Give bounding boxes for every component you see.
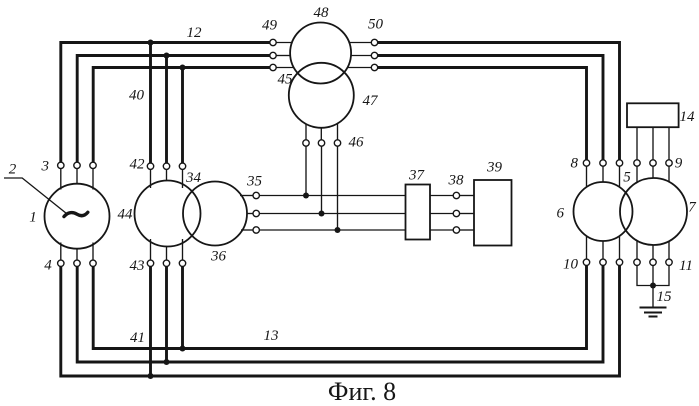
svg-text:5: 5 [623, 170, 631, 186]
pointer line from label 2 to tilde [4, 178, 67, 214]
svg-text:43: 43 [130, 258, 145, 274]
terminal 49c [270, 64, 276, 70]
block 14 [627, 103, 679, 127]
machine 6 (left circle of right pair) [574, 182, 633, 241]
wire terminal 46b down to row2 [321, 146, 323, 213]
svg-text:8: 8 [570, 156, 578, 172]
terminal 50c [371, 64, 377, 70]
junction dot tap40b-busB [164, 53, 170, 59]
terminal 10a [583, 259, 589, 265]
junction dot tap41c-busC [180, 346, 186, 352]
ground symbol [640, 308, 667, 317]
junction dot tap40c-busC [180, 65, 186, 71]
wire row2 terminal35b to rect37 [259, 213, 405, 215]
svg-text:42: 42 [130, 157, 146, 173]
terminal 49a [270, 39, 276, 45]
svg-text:45: 45 [278, 72, 294, 88]
wire machine44 bottom leads [151, 239, 183, 260]
wire bus phase C left+top segment [93, 68, 270, 163]
wire machine7 top leads from terminals 9 [637, 166, 669, 183]
svg-text:34: 34 [185, 170, 202, 186]
junction dot neutral point 15 [650, 283, 656, 289]
wire bus phase B left+top segment [77, 56, 270, 163]
wire machine6 bottom leads [587, 236, 620, 260]
wire tap 40c top bus C to terminal 42c [181, 68, 184, 164]
wire bus phase C bottom U segment [93, 265, 586, 348]
block 37 [406, 185, 431, 240]
block 39 [474, 180, 512, 246]
svg-text:6: 6 [557, 206, 565, 222]
terminal 4c [90, 260, 96, 266]
terminal 42a [147, 163, 153, 169]
wire rect37 to terminal38 row2 [430, 213, 453, 215]
svg-text:14: 14 [680, 109, 696, 125]
wire bus phase A left+top segment (machine1 top to transformer48 left) [61, 43, 270, 163]
terminal 11a [634, 259, 640, 265]
junction dot 46a-row1 [303, 193, 309, 199]
terminal 11b [650, 259, 656, 265]
terminal 3c [90, 162, 96, 168]
terminal 38c [453, 227, 459, 233]
terminal 35c [253, 227, 259, 233]
wire rect37 to terminal38 row1 [430, 195, 453, 197]
terminal 9a [634, 160, 640, 166]
svg-text:38: 38 [448, 173, 465, 189]
terminal 46b [318, 140, 324, 146]
terminal 46a [303, 140, 309, 146]
terminal 38b [453, 210, 459, 216]
wire terminal 46c down to row3 [337, 146, 339, 230]
wire tap 40a top bus A to terminal 42a [149, 43, 152, 164]
svg-text:3: 3 [40, 159, 49, 175]
terminal 42c [179, 163, 185, 169]
terminal 3a [58, 162, 64, 168]
junction dot tap41b-busB [164, 359, 170, 365]
svg-text:Фиг. 8: Фиг. 8 [328, 377, 396, 406]
svg-text:40: 40 [129, 88, 145, 104]
wire tap 41c terminal 43c to bottom bus C [181, 266, 184, 348]
terminal 50a [371, 39, 377, 45]
terminal 46c [334, 140, 340, 146]
svg-text:4: 4 [44, 258, 52, 274]
wire row3 terminal35c to rect37 [259, 229, 405, 231]
svg-text:35: 35 [246, 174, 263, 190]
terminal 43b [163, 260, 169, 266]
svg-text:46: 46 [349, 135, 365, 151]
machine 36 (right circle of pair) [183, 182, 247, 246]
terminal 43c [179, 260, 185, 266]
wire machine44 top leads [151, 169, 183, 188]
wire bus phase B bottom U segment [77, 265, 603, 362]
svg-text:11: 11 [679, 258, 693, 274]
wire terminal38 to rect39 row3 [460, 229, 474, 231]
terminal 35b [253, 210, 259, 216]
terminal 11c [666, 259, 672, 265]
wire transformer48 left leads from terminals 49 [276, 43, 294, 68]
machine 1 (AC generator) [45, 184, 110, 249]
wire tap 40b top bus B to terminal 42b [165, 56, 168, 164]
wire machine1 bottom leads [61, 243, 93, 261]
machine 7 (right circle of right pair) [620, 178, 687, 245]
svg-text:36: 36 [210, 249, 227, 265]
transformer winding 47 (bottom circle) [289, 63, 354, 128]
terminal 49b [270, 52, 276, 58]
svg-text:47: 47 [363, 93, 380, 109]
terminal 8a [583, 160, 589, 166]
wire machine1 top leads [61, 168, 93, 189]
svg-text:49: 49 [262, 18, 278, 34]
svg-text:12: 12 [187, 25, 203, 41]
svg-text:1: 1 [29, 209, 37, 225]
machine 44 (left circle of pair) [135, 181, 201, 247]
terminal 8b [600, 160, 606, 166]
terminal 8c [616, 160, 622, 166]
wire transformer47 bottom leads to terminals 46 [306, 124, 338, 140]
terminal 10c [616, 259, 622, 265]
wire terminal38 to rect39 row2 [460, 213, 474, 215]
svg-text:9: 9 [675, 156, 683, 172]
wire tap 41a terminal 43a to bottom bus A [149, 266, 152, 376]
svg-text:50: 50 [368, 17, 384, 33]
transformer winding 48 (top circle) [290, 23, 351, 84]
terminal 10b [600, 259, 606, 265]
terminal 3b [74, 162, 80, 168]
wire row1 terminal35a to rect37 [259, 195, 405, 197]
wire bus phase A bottom U segment (machine6 bottom to machine1 bottom) [61, 265, 620, 376]
terminal 50b [371, 52, 377, 58]
wire machine6 top leads [587, 166, 620, 188]
wire rect37 to terminal38 row3 [430, 229, 453, 231]
wire transformer48 right leads to terminals 50 [347, 43, 371, 68]
terminal 42b [163, 163, 169, 169]
wire machine36 output leads to terminals 35 [240, 196, 253, 231]
junction dot tap41a-busA [148, 373, 154, 379]
junction dot 46b-row2 [319, 211, 325, 217]
terminal 35a [253, 192, 259, 198]
svg-text:2: 2 [9, 162, 17, 178]
svg-text:15: 15 [657, 289, 673, 305]
svg-text:48: 48 [314, 5, 330, 21]
wire terminal38 to rect39 row1 [460, 195, 474, 197]
svg-text:39: 39 [486, 160, 503, 176]
svg-text:13: 13 [264, 328, 279, 344]
junction dot 46c-row3 [335, 227, 341, 233]
wire tap 41b terminal 43b to bottom bus B [165, 266, 168, 362]
wire bus phase B right+top segment [378, 56, 603, 161]
wire terminal 46a down to row1 [305, 146, 307, 195]
terminal 4b [74, 260, 80, 266]
junction dot tap40a-busA [148, 40, 154, 46]
wire bus phase C right+top segment [378, 68, 587, 161]
terminal 38a [453, 192, 459, 198]
svg-text:44: 44 [118, 206, 134, 222]
terminal 9b [650, 160, 656, 166]
wire terminals 11 star join to neutral point 15 [637, 265, 669, 285]
wire rect14 to terminals 9 [637, 127, 669, 160]
wire neutral lead terminal 11b to ground [652, 265, 654, 307]
AC tilde symbol inside machine 1 [64, 212, 88, 216]
wire bus phase A right+top segment (transformer48 right to machine6 top) [378, 43, 620, 161]
svg-text:10: 10 [563, 257, 579, 273]
terminal 4a [58, 260, 64, 266]
svg-text:41: 41 [130, 330, 145, 346]
terminal 9c [666, 160, 672, 166]
wire machine7 bottom leads to terminals 11 [637, 241, 669, 260]
svg-text:37: 37 [408, 168, 426, 184]
terminal 43a [147, 260, 153, 266]
